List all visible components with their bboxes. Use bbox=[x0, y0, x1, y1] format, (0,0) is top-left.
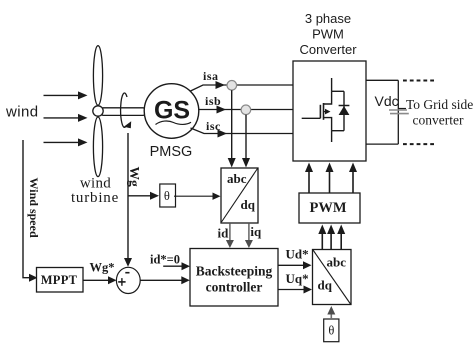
svg-text:wind: wind bbox=[5, 104, 38, 121]
MOSFET source stub bbox=[324, 118, 332, 131]
phase wire isa bbox=[191, 85, 294, 91]
turbine blade upper bbox=[93, 46, 102, 106]
svg-text:controller: controller bbox=[206, 280, 263, 295]
svg-text:Wg: Wg bbox=[127, 167, 142, 188]
svg-text:isc: isc bbox=[206, 119, 221, 133]
svg-text:abc: abc bbox=[227, 171, 247, 186]
Ud* wire bbox=[278, 264, 305, 266]
diode bottom wire bbox=[332, 130, 344, 132]
MOSFET gate lead bbox=[302, 117, 321, 119]
svg-text:MPPT: MPPT bbox=[41, 273, 78, 287]
inverse transform to PWM arrow 3 bbox=[340, 232, 342, 250]
svg-text:PWM: PWM bbox=[312, 27, 344, 42]
MPPT box bbox=[37, 268, 84, 293]
svg-text:dq: dq bbox=[241, 197, 256, 212]
MOSFET bottom lead bbox=[331, 131, 333, 142]
svg-text:converter: converter bbox=[413, 113, 464, 128]
Wg shaft speed wire bbox=[127, 133, 129, 260]
svg-text:isa: isa bbox=[203, 69, 219, 83]
svg-text:dq: dq bbox=[318, 278, 333, 293]
MPPT to sum arrow bbox=[83, 279, 110, 281]
id output wire bbox=[229, 223, 231, 242]
dotted line bottom bbox=[403, 143, 434, 145]
svg-text:id*=0: id*=0 bbox=[150, 253, 180, 267]
PWM box bbox=[299, 193, 360, 223]
svg-text:Converter: Converter bbox=[299, 42, 357, 57]
theta to inverse transform arrow bbox=[330, 313, 332, 319]
svg-text:3 phase: 3 phase bbox=[305, 11, 351, 26]
Uq* wire bbox=[278, 289, 306, 291]
inverse transform to PWM arrow 1 bbox=[321, 232, 323, 250]
svg-text:Vdc: Vdc bbox=[375, 93, 399, 109]
turbine hub bbox=[93, 106, 103, 116]
capacitor plate bottom bbox=[390, 113, 409, 115]
id* reference arrow bbox=[163, 265, 183, 267]
theta estimator box bbox=[160, 184, 176, 207]
wind arrow 3 bbox=[44, 141, 81, 143]
MOSFET channel bar bbox=[323, 103, 325, 120]
capacitor plate top bbox=[389, 109, 407, 111]
svg-text:Uq*: Uq* bbox=[286, 271, 309, 286]
phase wire isb bbox=[199, 109, 293, 111]
summing junction bbox=[116, 267, 140, 293]
rotation arrow around shaft bbox=[121, 93, 127, 127]
svg-text:abc: abc bbox=[327, 255, 347, 270]
diode top wire bbox=[332, 90, 344, 92]
wind arrow 2 bbox=[44, 117, 81, 119]
dotted line top bbox=[403, 80, 434, 82]
DC bus bottom wire bbox=[366, 143, 398, 145]
MOSFET gate bar bbox=[319, 105, 321, 119]
svg-text:turbine: turbine bbox=[71, 190, 119, 206]
svg-text:Backsteeping: Backsteeping bbox=[196, 264, 273, 279]
MOSFET drain stub bbox=[324, 91, 332, 104]
theta to transform arrow bbox=[174, 195, 214, 197]
MOSFET body arrow bbox=[324, 111, 327, 113]
PWM to converter arrow 2 bbox=[329, 170, 331, 193]
DC bus top wire bbox=[366, 79, 398, 81]
svg-text:GS: GS bbox=[154, 97, 190, 125]
svg-text:θ: θ bbox=[164, 189, 170, 203]
current sensor b bbox=[241, 105, 251, 115]
tick to grid label bbox=[398, 108, 406, 110]
abc to dq transform box bbox=[221, 168, 258, 223]
svg-text:Ud*: Ud* bbox=[286, 247, 309, 262]
converter box bbox=[293, 61, 366, 161]
svg-text:To Grid side: To Grid side bbox=[406, 97, 473, 112]
sensor b drop wire bbox=[245, 115, 247, 160]
svg-text:iq: iq bbox=[250, 224, 262, 239]
svg-text:Wind speed: Wind speed bbox=[27, 178, 41, 238]
svg-text:id: id bbox=[218, 226, 230, 241]
DC bus right wire bbox=[397, 80, 399, 144]
turbine blade lower bbox=[93, 117, 102, 177]
Wg to theta arrow bbox=[128, 195, 152, 197]
svg-text:θ: θ bbox=[328, 324, 334, 338]
svg-text:PMSG: PMSG bbox=[150, 144, 193, 160]
iq output wire bbox=[248, 223, 250, 242]
sensor a drop wire bbox=[231, 90, 233, 160]
freewheel diode bbox=[343, 91, 345, 130]
Backstepping controller box bbox=[190, 249, 278, 307]
current sensor a bbox=[227, 81, 237, 91]
PWM to converter arrow 1 bbox=[308, 170, 310, 193]
phase wire isc bbox=[191, 128, 294, 134]
generator GS circle bbox=[144, 84, 199, 139]
svg-text:isb: isb bbox=[205, 94, 221, 108]
svg-text:Wg*: Wg* bbox=[90, 261, 115, 275]
wind arrow 1 bbox=[44, 94, 81, 96]
theta input box bbox=[324, 319, 339, 342]
shaft bbox=[100, 108, 147, 116]
wind speed sense wire bbox=[23, 140, 31, 278]
dq to abc inverse transform box bbox=[313, 250, 352, 305]
svg-text:PWM: PWM bbox=[309, 200, 346, 216]
PWM to converter arrow 3 bbox=[352, 170, 354, 193]
inverse transform to PWM arrow 2 bbox=[330, 232, 332, 250]
sum to controller wire bbox=[140, 279, 183, 281]
MOSFET top lead bbox=[331, 78, 333, 91]
